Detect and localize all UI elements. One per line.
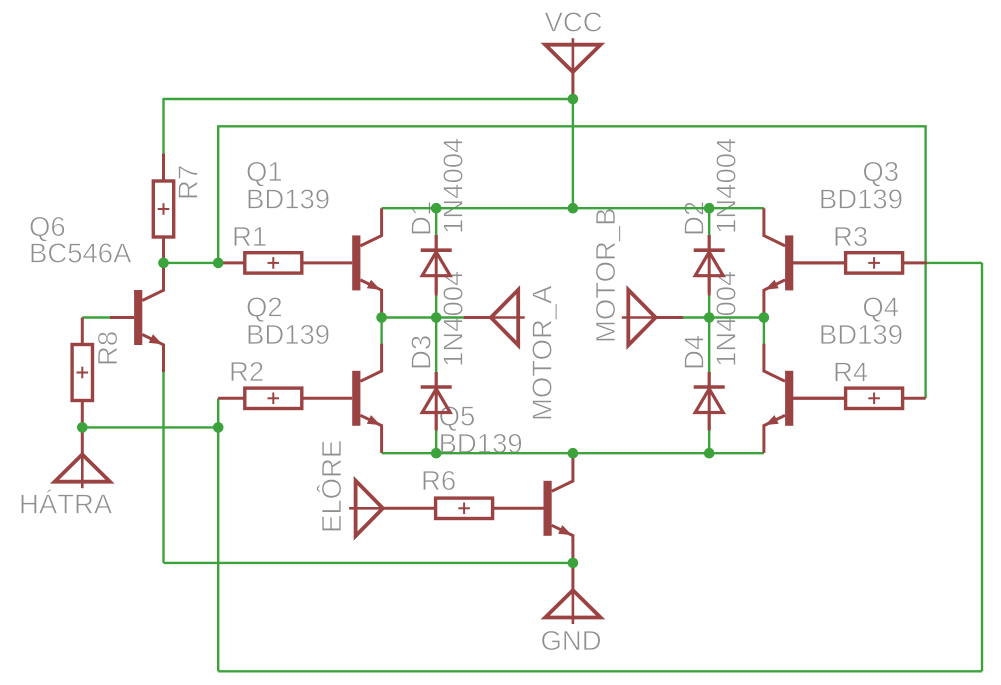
input symbol ELORE — [349, 481, 383, 536]
wire R2 corner drop — [217, 398, 219, 427]
pin D2 bottom — [708, 278, 711, 296]
wire Q6 base link — [82, 316, 110, 318]
junction D2 bottom — [704, 312, 715, 323]
transistor Q3 — [764, 208, 846, 317]
wire R7-R1 node link — [164, 262, 219, 264]
wire D1 top link — [435, 208, 437, 235]
svg-text:BD139: BD139 — [246, 183, 330, 214]
pin D4 top — [708, 372, 711, 387]
junction R8 bottom — [77, 422, 88, 433]
transistor Q4 — [764, 344, 846, 453]
wire VCC rail top — [164, 98, 573, 100]
svg-text:Q4: Q4 — [862, 292, 899, 323]
wire cross-couple rail — [218, 125, 925, 127]
junction VCC rail — [568, 203, 579, 214]
pin R8 bottom — [81, 401, 84, 428]
diode D3 — [421, 372, 452, 430]
transistor Q2 — [352, 344, 381, 453]
junction node A left — [376, 312, 387, 323]
svg-text:MOTOR_B: MOTOR_B — [590, 208, 621, 344]
junction R2 node — [213, 422, 224, 433]
svg-text:Q2: Q2 — [246, 292, 283, 323]
junction VCC — [568, 94, 579, 105]
wire R7 top feed — [162, 98, 164, 154]
pin R1 left — [220, 261, 245, 264]
svg-text:D3: D3 — [406, 335, 437, 370]
pin HATRA — [81, 427, 84, 454]
junction D2 top — [704, 203, 715, 214]
svg-text:ELÔRE: ELÔRE — [316, 440, 347, 533]
pin ELORE to R6 — [383, 507, 436, 510]
wire Q4 collector link — [763, 318, 765, 345]
pin D1 bottom — [435, 278, 438, 296]
svg-text:R6: R6 — [421, 465, 456, 496]
wire GND rail — [164, 562, 573, 564]
pin D4 bottom — [708, 414, 711, 431]
pin R2 left — [218, 397, 245, 400]
resistor R6 — [436, 498, 493, 518]
svg-text:R4: R4 — [833, 356, 868, 387]
svg-text:R8: R8 — [92, 331, 123, 366]
resistor R8 — [72, 345, 92, 401]
ground symbol GND — [545, 590, 600, 624]
wire D3 bottom link — [435, 430, 437, 453]
resistor R4 — [846, 388, 903, 408]
wire Q2 collector link — [380, 318, 382, 345]
pin MOTOR_A — [464, 316, 491, 319]
wire node MOTOR_B rail — [683, 316, 764, 318]
pin R8 top — [81, 318, 84, 345]
wire D4 bottom link — [708, 430, 710, 453]
wire VCC drop — [572, 99, 574, 208]
svg-text:BD139: BD139 — [819, 319, 903, 350]
wire R3 to right border — [927, 262, 982, 264]
wire VCC distribution rail — [382, 207, 764, 209]
wire D4 top link — [708, 318, 710, 373]
pin R7 top — [162, 154, 165, 182]
supply symbol VCC — [545, 38, 600, 72]
junction D1 bottom — [431, 312, 442, 323]
pin VCC — [571, 72, 574, 99]
diode D1 — [421, 235, 452, 293]
svg-text:VCC: VCC — [545, 7, 603, 38]
resistor R3 — [846, 253, 903, 273]
junction R1 node — [213, 258, 224, 269]
pin R3 right — [902, 261, 927, 264]
terminal symbol MOTOR_A — [491, 290, 525, 345]
transistor Q6 — [110, 263, 164, 372]
wire HATRA link — [82, 426, 218, 428]
svg-text:1N4004: 1N4004 — [438, 138, 469, 234]
pin R2 to Q2 base — [302, 397, 352, 400]
svg-text:HÁTRA: HÁTRA — [19, 489, 113, 520]
pin D3 bottom — [435, 414, 438, 431]
wire D1 bottom link — [435, 295, 437, 318]
diode D4 — [694, 372, 725, 430]
svg-text:GND: GND — [541, 625, 602, 656]
junction D3 bottom — [431, 448, 442, 459]
input symbol HATRA — [55, 454, 110, 488]
wire right border riser — [981, 263, 983, 671]
junction GND node — [568, 558, 579, 569]
pin D2 top — [708, 235, 711, 250]
wire node MOTOR_A rail — [382, 316, 464, 318]
pin D3 top — [435, 372, 438, 387]
svg-text:D4: D4 — [679, 335, 710, 370]
wire D3 top link — [435, 318, 437, 373]
wire bottom border — [218, 670, 982, 672]
pin R6 to Q5 base — [492, 507, 544, 510]
diode D2 — [694, 235, 725, 293]
svg-text:R7: R7 — [173, 165, 204, 200]
pin R1 to Q1 base — [302, 261, 352, 264]
svg-text:BD139: BD139 — [819, 183, 903, 214]
pin D1 top — [435, 235, 438, 250]
wire lower device rail — [382, 452, 764, 454]
pin R4 left — [793, 397, 846, 400]
junction node B right — [759, 312, 770, 323]
svg-text:R1: R1 — [232, 221, 267, 252]
junction R7 bottom — [158, 258, 169, 269]
svg-text:1N4004: 1N4004 — [711, 138, 742, 234]
transistor Q5 — [544, 454, 573, 563]
terminal symbol MOTOR_B — [622, 290, 656, 345]
pin MOTOR_B — [656, 316, 683, 319]
svg-text:1N4004: 1N4004 — [711, 271, 742, 367]
wire left border drop — [217, 427, 219, 671]
resistor R2 — [245, 388, 302, 408]
junction D4 bottom — [704, 448, 715, 459]
junction Q5 collector — [568, 448, 579, 459]
svg-text:MOTOR_A: MOTOR_A — [527, 285, 558, 421]
svg-text:R3: R3 — [833, 221, 868, 252]
pin R7 bottom — [162, 237, 165, 263]
wire D2 top link — [708, 208, 710, 235]
wire node R1 drop — [217, 125, 219, 263]
wire D2 bottom link — [708, 295, 710, 318]
svg-text:BD139: BD139 — [246, 319, 330, 350]
resistor R1 — [245, 253, 302, 273]
svg-text:R2: R2 — [229, 356, 264, 387]
pin R4 right — [902, 397, 925, 400]
pin GND — [571, 563, 574, 590]
wire Q6 emitter drop — [162, 372, 164, 563]
pin R3 left — [793, 261, 846, 264]
transistor Q1 — [352, 208, 381, 317]
resistor R7 — [153, 181, 173, 237]
svg-text:BC546A: BC546A — [29, 238, 132, 269]
wire R4 riser — [924, 125, 926, 398]
junction D1 top — [431, 203, 442, 214]
